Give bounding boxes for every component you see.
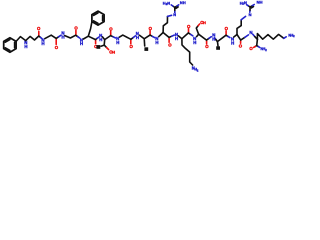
svg-text:H: H [42, 41, 45, 46]
wire CA5 to CB5 [103, 40, 106, 46]
carbonyl C2=O down [55, 39, 57, 44]
wire C9 to N10 [188, 33, 190, 35]
wire CA12 to C12 [237, 35, 241, 41]
svg-text:H: H [203, 20, 206, 25]
wire C6 to N7 [131, 38, 133, 40]
bond CA13 to C-terminal C [256, 39, 259, 45]
wire N3 to G3 CH2 to C3 [65, 35, 76, 38]
wire CA5 to C5 [105, 36, 111, 40]
wire CA10 to C10 [199, 34, 207, 40]
wire CA4 CH2 up to ring F4 [88, 22, 92, 36]
wire N11 to CA11 [215, 38, 216, 40]
C-terminal C=O [255, 45, 257, 48]
guanidine C12 to H2N [248, 6, 250, 7]
carbonyl C3=O up [75, 30, 77, 34]
guanidine C8 double bond NH right [175, 6, 177, 7]
svg-text:H: H [231, 40, 234, 45]
svg-text:H: H [116, 40, 119, 45]
wire N5 to CA5 [103, 37, 105, 40]
wire N10 to CA10 [197, 34, 199, 36]
svg-text:H: H [175, 36, 178, 41]
carbonyl C12=O down [240, 41, 242, 43]
wire CA11 to C11 [217, 35, 226, 41]
wire C8 to N9 [169, 36, 172, 37]
carbonyl C7=O up [149, 31, 151, 35]
wire C2 to N3 [56, 37, 58, 39]
svg-text:H: H [155, 40, 158, 45]
CH3 blob A11 [216, 46, 220, 50]
bond CA11 to CH3 [217, 43, 219, 46]
wire C7 to N8 [150, 35, 153, 36]
wire N6 to G6 CH2 to C6 [120, 35, 131, 39]
Lys13 side chain right [257, 34, 283, 40]
CH3 blob A7 [144, 47, 148, 51]
bond CA7 to CH3 [143, 40, 145, 46]
wire N4 to CA4 [83, 36, 88, 39]
svg-text:N: N [167, 0, 170, 5]
svg-text:N: N [244, 0, 247, 5]
wire C12 to N13 [241, 37, 245, 40]
carbonyl C9=O up [188, 29, 190, 33]
svg-text:H: H [260, 0, 263, 5]
Arg12 side chain up [237, 20, 241, 35]
wire CA7 to C7 [144, 35, 150, 39]
bond NE12 to guanidine C [249, 10, 251, 12]
guanidine C12 double bond NH right [250, 6, 252, 7]
wire CA1 to C1 [26, 36, 39, 41]
carbonyl C8=O down [168, 38, 170, 42]
svg-text:H: H [193, 40, 196, 45]
bond NE8 to guanidine C [174, 10, 176, 12]
wire N7 to CA7 [140, 35, 145, 39]
Ser10 side chain up [196, 26, 198, 35]
carbonyl C5=O up [110, 31, 112, 35]
benzene ring F4 [92, 11, 104, 25]
svg-text:H: H [99, 37, 102, 42]
wire G2 CH2 to C2 [51, 35, 56, 38]
svg-text:H: H [24, 44, 27, 49]
Lys9 side chain down [182, 39, 193, 65]
svg-text:H: H [136, 35, 139, 40]
wire C11 to N12 [226, 35, 228, 36]
wire benzyl CH2 to CA1 [16, 37, 26, 42]
wire C4 to N5 [96, 38, 98, 39]
svg-text:H: H [112, 49, 115, 54]
bond CB5 to CH3 [101, 45, 104, 46]
carbonyl C6=O down [130, 40, 132, 44]
wire N2 to G2 CH2 [45, 35, 51, 38]
wire C1 to N2 [39, 36, 41, 38]
carbonyl C4=O down [95, 41, 97, 44]
wire C5 to N6 [111, 36, 114, 37]
benzene ring F1 [4, 38, 16, 52]
guanidine C8 to H2N [173, 6, 175, 7]
carbonyl C11=O up [225, 31, 227, 35]
carbonyl C10=O down [206, 41, 208, 44]
Arg8 side chain up [163, 16, 167, 32]
CH3 blob T5 [96, 45, 100, 49]
C-terminal amide NH2 [257, 46, 259, 47]
bond CB5 to OH [104, 45, 106, 48]
wire CA8 to C8 [163, 33, 169, 38]
svg-text:H: H [80, 41, 83, 46]
wire N13 to CA13 [253, 34, 255, 36]
wire N8 to CA8 [159, 33, 163, 37]
wire CA9 to C9 [182, 33, 189, 39]
svg-text:H: H [183, 0, 186, 5]
wire CA4 to C4 [88, 36, 95, 39]
wire N9 to CA9 [178, 36, 182, 39]
wire C3 to N4 [76, 35, 78, 37]
wire N12 to CA12 [234, 35, 237, 38]
carbonyl C1=O up [38, 31, 40, 35]
wire C10 to N11 [207, 38, 210, 40]
